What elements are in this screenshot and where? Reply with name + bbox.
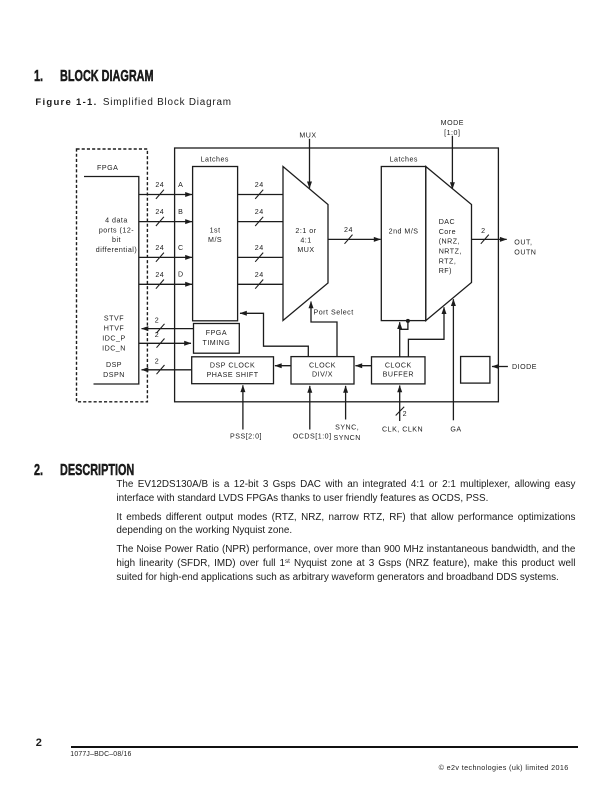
wire MODE control arrow (451, 136, 453, 189)
svg-text:4 data: 4 data (105, 216, 128, 224)
wire output bus OUT/OUTN (472, 238, 507, 240)
svg-text:24: 24 (155, 271, 164, 279)
bus width slash MS-MUX 2 (255, 217, 263, 226)
svg-text:NRTZ,: NRTZ, (439, 248, 462, 256)
svg-text:SYNCN: SYNCN (334, 434, 361, 442)
svg-text:DSP: DSP (106, 361, 122, 369)
svg-text:24: 24 (255, 244, 264, 252)
svg-text:M/S: M/S (208, 236, 222, 244)
latch block 1st M/S (193, 167, 238, 321)
wire SYNC/SYNCN (345, 386, 347, 420)
svg-text:2: 2 (155, 357, 159, 365)
svg-text:IDC_N: IDC_N (102, 344, 126, 352)
svg-text:2: 2 (155, 316, 159, 324)
bus width slash STVF (157, 324, 165, 333)
section heading 1 (34, 68, 196, 86)
wire DIODE (492, 366, 508, 368)
svg-text:(NRZ,: (NRZ, (439, 238, 460, 246)
bus width slash B (156, 217, 164, 226)
latch block 2nd M/S (381, 167, 426, 321)
svg-text:SYNC,: SYNC, (335, 424, 359, 432)
bus width slash IDC (157, 339, 165, 348)
svg-text:PSS[2:0]: PSS[2:0] (230, 433, 262, 441)
svg-text:A: A (178, 181, 183, 189)
wire junction hook (400, 321, 408, 329)
svg-text:ports (12-: ports (12- (99, 226, 134, 234)
svg-text:24: 24 (155, 244, 164, 252)
svg-text:2:1 or: 2:1 or (295, 227, 316, 235)
svg-text:1st: 1st (210, 226, 221, 234)
svg-text:STVF: STVF (104, 314, 124, 322)
svg-text:MODE: MODE (441, 119, 464, 127)
svg-text:OUTN: OUTN (514, 248, 536, 256)
bus width slash MS-MUX 1 (255, 190, 263, 199)
svg-text:RF): RF) (439, 267, 452, 275)
wire bus MUX to 2nd M/S (328, 238, 381, 240)
svg-text:DAC: DAC (439, 218, 455, 226)
svg-text:24: 24 (344, 226, 353, 234)
footer page number (36, 737, 42, 749)
svg-text:PHASE SHIFT: PHASE SHIFT (207, 371, 259, 379)
svg-text:CLK, CLKN: CLK, CLKN (382, 426, 423, 434)
svg-text:BUFFER: BUFFER (383, 370, 414, 378)
bus width slash C (156, 253, 164, 262)
block CLOCK BUFFER (372, 357, 426, 384)
wire clock feedback to 1st M/S (240, 313, 308, 356)
junction dot (406, 319, 410, 323)
svg-text:FPGA: FPGA (206, 329, 227, 337)
figure caption (35, 97, 231, 108)
svg-text:2: 2 (481, 227, 485, 235)
svg-text:Core: Core (439, 228, 456, 236)
block CLOCK DIV/X (291, 357, 354, 384)
wire CLOCK BUFFER to CLOCK DIV (355, 365, 371, 367)
svg-text:4:1: 4:1 (300, 237, 311, 245)
bus width slash MS-MUX 3 (255, 253, 263, 262)
footer doc id (70, 751, 131, 758)
svg-text:CLOCK: CLOCK (309, 361, 336, 369)
footer rule (71, 746, 578, 748)
chip outer boundary rectangle (175, 148, 499, 402)
block FPGA TIMING (194, 324, 240, 354)
svg-text:DIV/X: DIV/X (312, 370, 333, 378)
wire MUX control arrow (309, 139, 311, 189)
svg-text:CLOCK: CLOCK (385, 361, 412, 369)
svg-text:2nd M/S: 2nd M/S (389, 227, 419, 235)
bus width slash output (481, 235, 489, 244)
svg-text:differential): differential) (96, 246, 137, 254)
bus width slash A (156, 190, 164, 199)
bus width slash MUX-2nd (345, 235, 353, 244)
wire bus C (139, 256, 192, 258)
wire CLOCK BUFFER to 2nd M/S (399, 322, 401, 357)
wire CLOCK BUFFER to DAC core (408, 307, 444, 357)
svg-text:24: 24 (255, 208, 264, 216)
svg-text:MUX: MUX (299, 131, 316, 139)
wire Port Select (311, 302, 337, 357)
wire bus MS-MUX 2 (238, 221, 284, 223)
svg-text:IDC_P: IDC_P (102, 334, 125, 342)
wire CLK/CLKN (399, 386, 401, 422)
wire OCDS[1:0] (309, 386, 311, 430)
svg-text:Latches: Latches (201, 156, 229, 164)
svg-text:24: 24 (255, 181, 264, 189)
wire bus B (139, 221, 192, 223)
svg-text:DSPN: DSPN (103, 371, 125, 379)
svg-text:Port Select: Port Select (314, 308, 354, 316)
wire STVF/HTVF (142, 328, 194, 330)
svg-text:HTVF: HTVF (104, 325, 125, 333)
FPGA bracket outline (84, 177, 139, 385)
svg-text:Latches: Latches (390, 156, 418, 164)
svg-text:GA: GA (450, 426, 461, 434)
wire CLOCK DIV to PHASE SHIFT (275, 365, 291, 367)
section heading 2 (34, 462, 168, 480)
svg-text:B: B (178, 208, 183, 216)
wire bus MS-MUX 3 (238, 256, 284, 258)
DAC core trapezoid (426, 167, 472, 321)
bus width slash D (156, 280, 164, 289)
bus width slash MS-MUX 4 (255, 280, 263, 289)
wire bus D (139, 283, 192, 285)
bus width slash DSP (157, 365, 165, 374)
footer copyright (439, 763, 569, 772)
block DSP CLOCK PHASE SHIFT (192, 357, 274, 384)
wire DSP/DSPN (142, 369, 192, 371)
wire bus MS-MUX 1 (238, 194, 284, 196)
wire IDC_P/IDC_N (139, 342, 191, 344)
svg-text:TIMING: TIMING (202, 339, 230, 347)
bus width slash CLK (396, 407, 405, 416)
wire GA (452, 299, 454, 420)
wire bus MS-MUX 4 (238, 283, 284, 285)
svg-text:RTZ,: RTZ, (439, 257, 457, 265)
svg-text:2: 2 (403, 410, 407, 418)
FPGA dashed box (77, 149, 148, 402)
svg-text:24: 24 (155, 208, 164, 216)
svg-text:OUT,: OUT, (514, 238, 532, 246)
svg-text:DIODE: DIODE (512, 363, 537, 371)
svg-text:[1:0]: [1:0] (444, 129, 460, 137)
svg-text:FPGA: FPGA (97, 164, 118, 172)
svg-text:bit: bit (112, 236, 121, 244)
diode box (461, 357, 490, 384)
svg-text:OCDS[1:0]: OCDS[1:0] (293, 433, 332, 441)
svg-text:DSP CLOCK: DSP CLOCK (210, 362, 255, 370)
svg-text:24: 24 (255, 271, 264, 279)
multiplexer 2:1 or 4:1 MUX trapezoid (283, 167, 328, 321)
svg-text:2: 2 (155, 331, 159, 339)
svg-text:C: C (178, 244, 184, 252)
svg-text:24: 24 (155, 181, 164, 189)
description paragraphs (116, 478, 575, 585)
svg-text:MUX: MUX (297, 246, 314, 254)
wire bus A (139, 194, 192, 196)
wire PSS[2:0] (242, 385, 244, 429)
svg-text:D: D (178, 271, 184, 279)
